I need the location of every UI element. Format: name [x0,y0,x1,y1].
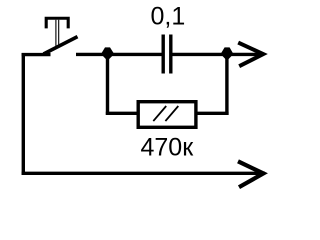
svg-text:470к: 470к [141,134,195,162]
svg-text:0,1: 0,1 [151,3,186,31]
